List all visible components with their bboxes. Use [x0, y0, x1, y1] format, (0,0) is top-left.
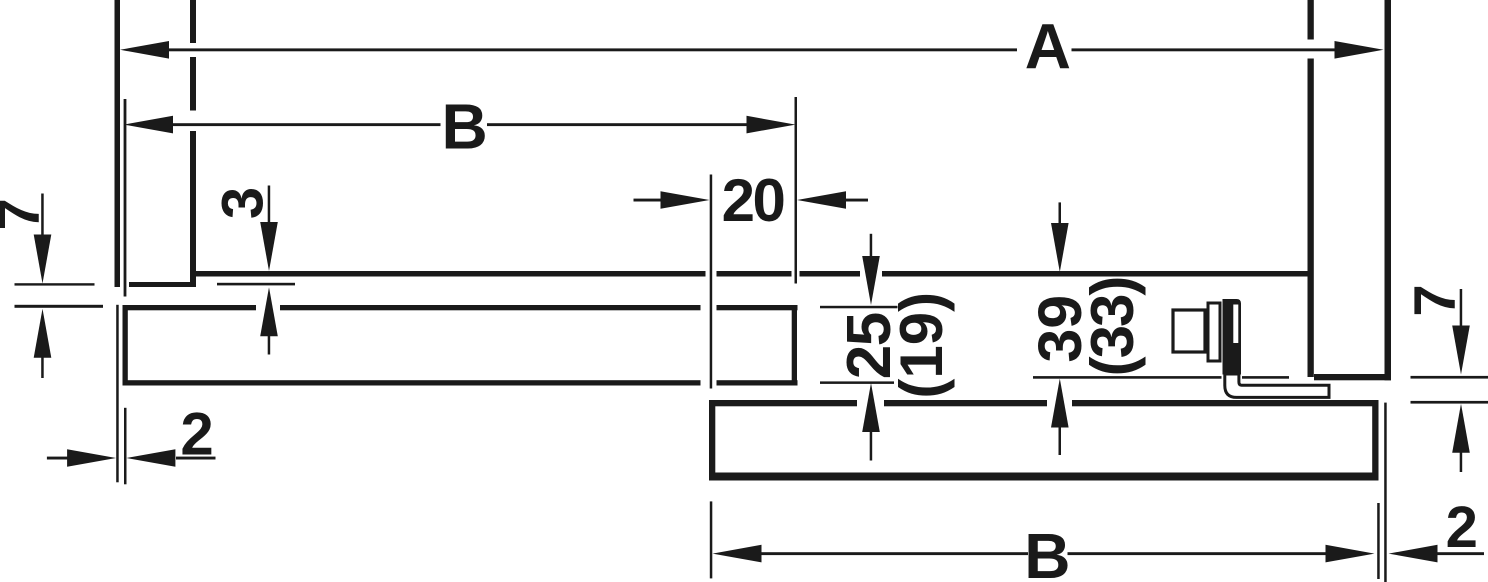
svg-text:(33): (33) — [1079, 278, 1146, 377]
svg-text:B: B — [441, 91, 487, 163]
svg-text:7: 7 — [0, 198, 52, 230]
svg-text:B: B — [1024, 520, 1070, 582]
svg-text:2: 2 — [1446, 495, 1478, 560]
svg-text:7: 7 — [1403, 284, 1468, 316]
svg-text:3: 3 — [211, 187, 276, 219]
svg-text:(19): (19) — [888, 292, 955, 399]
svg-text:A: A — [1025, 10, 1071, 82]
svg-text:2: 2 — [180, 401, 213, 468]
svg-text:20: 20 — [722, 167, 784, 234]
